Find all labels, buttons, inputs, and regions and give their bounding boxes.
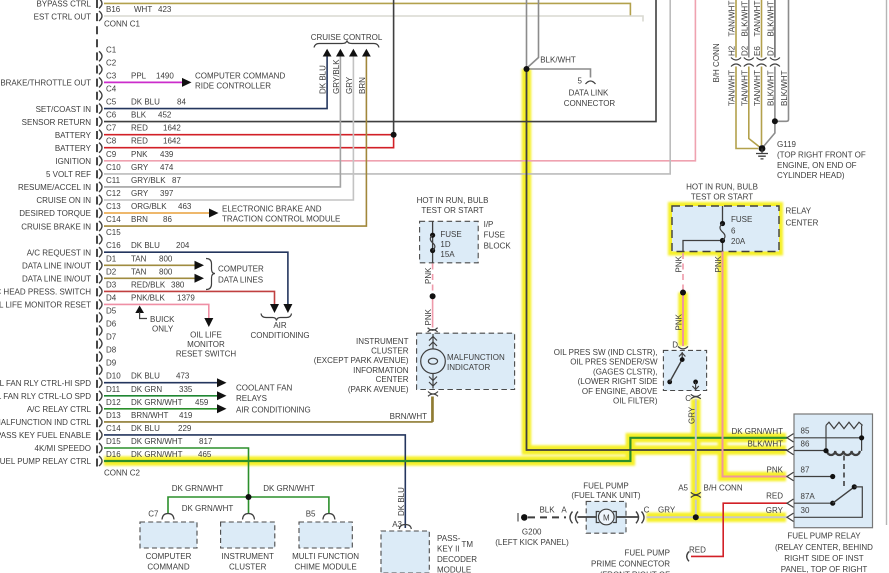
svg-text:HOT IN RUN, BULB: HOT IN RUN, BULB	[417, 196, 489, 205]
junction node D15 splice	[246, 494, 252, 500]
wire C14 BRN 86 cruise brake in	[104, 57, 366, 227]
junction node battery C7/C8	[391, 132, 397, 138]
motor fuel pump	[596, 509, 616, 525]
label electronic brake	[222, 205, 340, 224]
wire C9 PNK 439 ignition	[104, 0, 695, 161]
svg-text:423: 423	[158, 5, 172, 14]
svg-text:DATA LINE IN/OUT: DATA LINE IN/OUT	[22, 262, 91, 271]
svg-text:OIL LIFE: OIL LIFE	[190, 331, 222, 340]
svg-text:D12: D12	[106, 398, 121, 407]
svg-text:D15: D15	[106, 437, 121, 446]
svg-text:C6: C6	[106, 111, 117, 120]
svg-text:(LEFT KICK PANEL): (LEFT KICK PANEL)	[495, 538, 569, 547]
svg-text:FUEL PUMP: FUEL PUMP	[625, 549, 671, 558]
svg-text:84: 84	[177, 98, 186, 107]
malfunction indicator box	[417, 333, 515, 389]
svg-text:BLK/WHT: BLK/WHT	[766, 1, 775, 37]
svg-text:465: 465	[198, 450, 212, 459]
I/P fuse block box	[420, 221, 479, 262]
svg-text:IGNITION: IGNITION	[55, 157, 91, 166]
wire BLK/WHT B/H conn pin D7	[764, 0, 775, 147]
svg-text:TAN: TAN	[131, 254, 147, 263]
arrow up cruise BRN	[362, 49, 371, 57]
svg-text:335: 335	[179, 385, 193, 394]
svg-text:MONITOR: MONITOR	[187, 340, 225, 349]
ground G119	[756, 145, 768, 159]
label A5 B/H conn	[678, 484, 743, 493]
label B/H conn rotated	[712, 43, 721, 82]
svg-text:D6: D6	[106, 320, 117, 329]
junction node data link splice	[524, 66, 530, 72]
svg-text:D2: D2	[740, 45, 749, 56]
svg-text:CRUISE CONTROL: CRUISE CONTROL	[311, 33, 383, 42]
computer command ride controller box	[140, 522, 197, 548]
svg-text:RESUME/ACCEL IN: RESUME/ACCEL IN	[18, 183, 91, 192]
oil pressure switch box	[663, 350, 706, 390]
svg-text:PNK: PNK	[675, 313, 684, 330]
connector arc C7 box	[162, 514, 174, 520]
svg-text:FUEL PUMP RELAY: FUEL PUMP RELAY	[787, 532, 861, 541]
svg-text:CONN C1: CONN C1	[104, 20, 141, 29]
label pnk rotated fuse 1D	[424, 267, 433, 284]
fuse 6 symbol	[720, 221, 725, 243]
svg-text:DECODER: DECODER	[437, 555, 477, 564]
svg-text:ORG/BLK: ORG/BLK	[131, 202, 167, 211]
svg-text:COMPUTER: COMPUTER	[146, 552, 192, 561]
svg-text:DATA LINES: DATA LINES	[218, 276, 263, 285]
labels relay pin numbers	[801, 427, 816, 515]
wire PNK dashed to junction	[682, 253, 684, 290]
wire PNK to malfunction indicator	[432, 296, 434, 327]
svg-text:RED: RED	[766, 492, 783, 501]
svg-text:BRN/WHT: BRN/WHT	[131, 411, 168, 420]
svg-text:COMPUTER: COMPUTER	[218, 265, 264, 274]
svg-text:BLK/WHT: BLK/WHT	[747, 440, 783, 449]
connector arcs fuel pump pin A	[570, 512, 578, 524]
svg-text:BLOCK: BLOCK	[484, 242, 512, 251]
label blk and pin A	[539, 506, 567, 515]
svg-text:I/P: I/P	[484, 220, 494, 229]
svg-text:C3: C3	[106, 71, 117, 80]
wire fuel pump right lead	[617, 516, 639, 518]
connector arcs malfunction indicator bottom	[428, 392, 438, 397]
svg-text:D7: D7	[766, 45, 775, 56]
label oil life monitor reset switch	[176, 331, 237, 359]
svg-text:BLK: BLK	[131, 111, 147, 120]
svg-text:85: 85	[801, 427, 810, 436]
resistor relay coil suppressor	[826, 422, 863, 428]
junction node gry splice	[693, 514, 699, 520]
svg-text:RED: RED	[689, 546, 706, 555]
arrow D2 computer data lines	[195, 274, 205, 283]
wire color and circuit number labels	[131, 5, 213, 459]
svg-text:DK GRN/WHT: DK GRN/WHT	[731, 427, 783, 436]
svg-text:C11: C11	[106, 176, 121, 185]
label malfunction indicator	[447, 353, 505, 372]
wire BLK/WHT diagonal into junction	[528, 0, 539, 68]
svg-text:800: 800	[159, 267, 173, 276]
svg-text:C13: C13	[106, 202, 121, 211]
multi function chime module box	[299, 522, 352, 548]
label oil pressure switch location	[554, 348, 658, 406]
svg-text:30: 30	[801, 506, 810, 515]
svg-text:C7: C7	[106, 124, 117, 133]
svg-text:CHIME MODULE: CHIME MODULE	[294, 563, 356, 572]
HIGHLIGHT LAYER	[104, 69, 786, 517]
svg-text:H2: H2	[728, 45, 737, 56]
svg-text:86: 86	[801, 439, 810, 448]
svg-text:DK BLU: DK BLU	[131, 241, 160, 250]
wire BRN/WHT below malfunction indicator	[432, 397, 434, 422]
wire D11 DK GRN 335 fan relay lo	[104, 395, 217, 397]
pin arcs PCM connector	[99, 0, 102, 466]
svg-text:MALFUNCTION IND CTRL: MALFUNCTION IND CTRL	[0, 418, 92, 427]
svg-text:D13: D13	[106, 411, 121, 420]
svg-text:(RELAY CENTER, BEHIND: (RELAY CENTER, BEHIND	[775, 543, 873, 552]
svg-text:A/C HEAD PRESS. SWITCH: A/C HEAD PRESS. SWITCH	[0, 288, 91, 297]
svg-text:SENSOR RETURN: SENSOR RETURN	[22, 118, 92, 127]
svg-text:A3: A3	[392, 520, 402, 529]
svg-text:D4: D4	[106, 293, 117, 302]
svg-text:D1: D1	[106, 254, 117, 263]
svg-text:FUSE: FUSE	[731, 215, 752, 224]
wire B16 WHT 423 est ctrl out	[104, 16, 643, 22]
arrow D10 coolant fan relays	[217, 378, 227, 387]
left signal labels PCM	[0, 0, 92, 466]
wire C12 GRY 397 cruise on in	[104, 57, 353, 201]
svg-text:COOLANT FAN: COOLANT FAN	[236, 384, 293, 393]
svg-text:B/H CONN: B/H CONN	[704, 484, 743, 493]
wire fuse 6 internal stub	[722, 206, 724, 252]
svg-text:DK BLU: DK BLU	[131, 372, 160, 381]
connector arc instrument cluster box	[243, 514, 255, 520]
svg-text:COOL FAN RLY CTRL-HI SPD: COOL FAN RLY CTRL-HI SPD	[0, 379, 91, 388]
brace cruise control	[314, 41, 379, 48]
wire D12 DK GRN/WHT 459 a/c relay ctrl	[104, 408, 217, 410]
label C7 pin	[148, 510, 159, 519]
svg-text:C4: C4	[106, 85, 117, 94]
arrow up cruise DK BLU	[323, 49, 332, 57]
wire BLK fuel pump to G200 dashed	[528, 516, 566, 518]
wire D1 TAN 800 data line	[104, 264, 195, 266]
label multi function chime module box	[292, 552, 359, 573]
arrow down D4 oil life monitor reset switch	[204, 318, 213, 327]
svg-text:DATA LINE IN/OUT: DATA LINE IN/OUT	[22, 275, 91, 284]
svg-text:BLK/WHT: BLK/WHT	[540, 56, 576, 65]
svg-text:800: 800	[159, 254, 173, 263]
svg-text:380: 380	[171, 280, 185, 289]
svg-text:DK GRN/WHT: DK GRN/WHT	[131, 437, 183, 446]
svg-text:(GAGES CLSTR),: (GAGES CLSTR),	[593, 367, 657, 376]
instrument cluster box	[221, 522, 275, 548]
svg-text:C12: C12	[106, 189, 121, 198]
pin arrow 85	[787, 434, 794, 442]
svg-text:397: 397	[160, 189, 174, 198]
wire D15 DK GRN/WHT 817 speedo	[104, 448, 249, 497]
svg-text:DK BLU: DK BLU	[131, 424, 160, 433]
svg-text:CLUSTER: CLUSTER	[229, 563, 267, 572]
rotated wire labels below B/H conn	[728, 70, 790, 106]
svg-text:C1: C1	[106, 45, 117, 54]
svg-text:DK GRN/WHT: DK GRN/WHT	[263, 484, 315, 493]
connector arcs B/H conn H2	[731, 58, 741, 67]
svg-text:CRUISE BRAKE IN: CRUISE BRAKE IN	[21, 222, 91, 231]
label gry rotated	[687, 406, 696, 424]
svg-text:SET/COAST IN: SET/COAST IN	[36, 105, 92, 114]
svg-text:PRIME CONNECTOR: PRIME CONNECTOR	[591, 560, 670, 569]
label A3	[392, 520, 402, 529]
wire BLK/WHT to ground junction	[775, 0, 789, 121]
label fuel pump prime connector	[591, 549, 670, 573]
wire battery feed vertical	[393, 0, 395, 135]
relay internals fuel pump relay	[787, 422, 864, 521]
svg-text:RED/BLK: RED/BLK	[131, 280, 166, 289]
svg-text:BRN: BRN	[131, 215, 148, 224]
lamp malfunction indicator	[421, 334, 446, 389]
svg-text:439: 439	[160, 150, 174, 159]
svg-text:RESET SWITCH: RESET SWITCH	[176, 350, 237, 359]
svg-text:419: 419	[179, 411, 193, 420]
svg-text:PPL: PPL	[131, 71, 147, 80]
svg-text:MALFUNCTION: MALFUNCTION	[447, 353, 505, 362]
label blk/wht data link	[540, 56, 576, 65]
svg-text:DESIRED TORQUE: DESIRED TORQUE	[19, 209, 91, 218]
switch oil pressure	[667, 352, 699, 390]
svg-text:G119: G119	[777, 140, 797, 149]
svg-text:20A: 20A	[731, 237, 746, 246]
svg-text:OIL PRES SENDER/SW: OIL PRES SENDER/SW	[570, 358, 658, 367]
wire C8 RED 1642 battery	[104, 135, 394, 148]
connector arc fuel pump prime RED	[687, 552, 689, 562]
connector arcs oil pressure switch pin D	[678, 346, 688, 349]
wire PNK fuse6 branch left	[683, 241, 723, 252]
svg-text:BLK/WHT: BLK/WHT	[766, 70, 775, 106]
wire 30 internal	[794, 487, 862, 517]
armature dashed link	[843, 456, 845, 487]
wire PNK highlighted fuse6 to relay 87	[723, 252, 788, 477]
svg-text:D7: D7	[106, 333, 117, 342]
label fuel pump relay location	[775, 532, 873, 573]
label pnk rotated lower	[424, 308, 433, 325]
svg-text:TM: TM	[462, 540, 474, 549]
svg-text:RIDE CONTROLLER: RIDE CONTROLLER	[195, 81, 271, 90]
svg-text:6: 6	[731, 227, 736, 236]
wire C10 GRY 474 5 volt ref	[104, 0, 670, 174]
wire C13 ORG/BLK 463 desired torque	[104, 212, 209, 214]
svg-text:ONLY: ONLY	[152, 325, 174, 334]
svg-text:FUEL PUMP RELAY CTRL: FUEL PUMP RELAY CTRL	[0, 457, 92, 466]
svg-text:463: 463	[178, 202, 192, 211]
svg-text:PNK: PNK	[424, 308, 433, 325]
svg-text:C15: C15	[106, 228, 121, 237]
svg-text:INDICATOR: INDICATOR	[447, 363, 490, 372]
junction node pnk relay center splice	[680, 290, 686, 296]
connector arcs fuel pump pin C	[636, 512, 644, 524]
svg-text:D: D	[672, 340, 678, 349]
svg-text:AIR CONDITIONING: AIR CONDITIONING	[236, 406, 311, 415]
wire D16 DK GRN/WHT 465 fuel pump relay ctrl (highlighted)	[104, 438, 787, 461]
pin number labels PCM	[104, 5, 141, 478]
svg-text:(LOWER RIGHT SIDE: (LOWER RIGHT SIDE	[578, 377, 658, 386]
connector arcs malfunction indicator top	[428, 328, 438, 332]
svg-text:CENTER: CENTER	[376, 375, 409, 384]
svg-text:G200: G200	[522, 528, 542, 537]
connector arcs oil pressure switch pin C	[691, 394, 701, 399]
svg-text:PNK: PNK	[767, 466, 784, 475]
arrow D11 coolant fan relays	[217, 391, 227, 400]
svg-text:(FUEL TANK UNIT): (FUEL TANK UNIT)	[571, 491, 641, 500]
arrow up buick only note	[135, 306, 147, 319]
wire 87 internal	[794, 476, 833, 478]
svg-text:A5: A5	[678, 484, 688, 493]
svg-text:RIGHT SIDE OF INST: RIGHT SIDE OF INST	[784, 554, 864, 563]
connector arc B5 box	[323, 514, 335, 520]
wire highlight PNK to oil pressure switch	[678, 293, 688, 347]
wire D10 DK BLU 473 fan relay hi	[104, 382, 217, 384]
svg-text:PNK/BLK: PNK/BLK	[131, 293, 165, 302]
wire GRY fuel pump to relay 30	[647, 516, 788, 518]
svg-text:EST CTRL OUT: EST CTRL OUT	[34, 13, 91, 22]
svg-text:C16: C16	[106, 241, 121, 250]
pin arrow 30	[787, 513, 794, 521]
connector arcs B/H conn D7	[770, 58, 780, 67]
wire 86 internal	[794, 450, 826, 452]
wire TAN/WHT B/H conn pin D2	[749, 0, 761, 148]
wire B15 TAN bypass ctrl	[104, 3, 630, 16]
svg-text:87: 87	[172, 176, 181, 185]
junction node pnk splice	[430, 293, 436, 299]
svg-text:INSTRUMENT: INSTRUMENT	[221, 552, 274, 561]
pin arrow 87	[787, 472, 794, 480]
switch arm relay	[833, 487, 855, 503]
svg-text:A/C REQUEST IN: A/C REQUEST IN	[27, 248, 92, 257]
svg-text:DK GRN/WHT: DK GRN/WHT	[131, 398, 183, 407]
fuel pump relay box	[794, 414, 873, 528]
svg-text:BUICK: BUICK	[150, 315, 175, 324]
arrow D12 air conditioning	[217, 404, 227, 413]
svg-text:CLUSTER: CLUSTER	[371, 347, 409, 356]
wire D4 PNK/BLK 1379 oil life monitor reset	[104, 304, 209, 318]
labels dk grn/wht branches	[172, 484, 315, 513]
svg-text:CONNECTOR: CONNECTOR	[564, 99, 616, 108]
svg-text:D16: D16	[106, 450, 121, 459]
label red prime connector	[689, 546, 706, 555]
svg-text:(EXCEPT PARK AVENUE): (EXCEPT PARK AVENUE)	[314, 356, 409, 365]
wire C7 RED 1642 battery	[104, 134, 394, 136]
wire highlight BLK/WHT data-link to relay pin 86	[527, 69, 787, 450]
arrow C3 computer command ride controller	[182, 78, 192, 87]
svg-text:PASS-: PASS-	[437, 534, 461, 543]
svg-text:817: 817	[199, 437, 213, 446]
svg-text:BATTERY: BATTERY	[55, 144, 92, 153]
brace air conditioning	[261, 314, 292, 321]
wire highlight GRY switch to fuel pump and relay pin 30	[691, 399, 701, 517]
wire GRY oil pressure switch to fuel pump line	[695, 399, 697, 517]
svg-text:86: 86	[163, 215, 172, 224]
label hot in run fuse 1D	[417, 196, 489, 215]
svg-text:RED: RED	[131, 124, 148, 133]
svg-text:B16: B16	[106, 5, 121, 14]
wire highlight DK GRN/WHT D16 to relay pin 85	[104, 438, 786, 461]
wire RED relay 87A to prime connector	[691, 503, 787, 556]
label air conditioning d12	[236, 406, 311, 415]
svg-text:COMMAND: COMMAND	[147, 563, 189, 572]
svg-text:FUEL PUMP: FUEL PUMP	[583, 481, 629, 490]
svg-text:KEY II: KEY II	[437, 545, 460, 554]
svg-text:TAN: TAN	[131, 267, 147, 276]
svg-text:4K/MI SPEEDO: 4K/MI SPEEDO	[35, 444, 91, 453]
svg-text:474: 474	[160, 163, 174, 172]
svg-text:TAN/WHT: TAN/WHT	[728, 1, 737, 37]
svg-text:PNK: PNK	[675, 255, 684, 272]
svg-text:GRY/BLK: GRY/BLK	[332, 59, 341, 94]
label pnk rotated left branch	[675, 255, 684, 272]
svg-text:ELECTRONIC BRAKE AND: ELECTRONIC BRAKE AND	[222, 205, 322, 214]
label computer data lines	[218, 265, 264, 285]
svg-text:D3: D3	[106, 280, 117, 289]
wire PNK dashed below I/P fuse	[432, 264, 434, 295]
svg-text:C9: C9	[106, 150, 117, 159]
svg-text:GRY: GRY	[658, 506, 676, 515]
connector arcs B/H conn E6	[757, 58, 767, 67]
svg-text:BLK/WHT: BLK/WHT	[740, 1, 749, 37]
svg-text:5 VOLT REF: 5 VOLT REF	[46, 170, 91, 179]
svg-text:1D: 1D	[440, 240, 450, 249]
svg-text:GRY: GRY	[131, 163, 149, 172]
svg-text:TAN/WHT: TAN/WHT	[753, 70, 762, 106]
svg-text:DK BLU: DK BLU	[397, 487, 406, 516]
svg-text:DATA LINK: DATA LINK	[569, 89, 609, 98]
svg-text:87: 87	[801, 465, 810, 474]
svg-text:TEST OR START: TEST OR START	[421, 206, 483, 215]
connector arc data link pin 5	[586, 81, 596, 84]
label air conditioning bottom left	[250, 321, 309, 340]
svg-text:AIR: AIR	[273, 321, 287, 330]
svg-text:GRY: GRY	[766, 506, 784, 515]
label dk blu rotated pass-key	[397, 487, 406, 516]
wire C11 GRY/BLK 87 resume/accel in	[104, 57, 340, 187]
svg-text:CENTER: CENTER	[786, 219, 819, 228]
label B5 pin	[306, 510, 316, 519]
svg-text:FUSE: FUSE	[484, 231, 505, 240]
svg-text:DK GRN: DK GRN	[131, 385, 162, 394]
svg-text:GRY: GRY	[687, 406, 696, 424]
svg-text:PNK: PNK	[424, 267, 433, 284]
svg-text:COOL FAN RLY CTRL-LO SPD: COOL FAN RLY CTRL-LO SPD	[0, 392, 91, 401]
wire C3 PPL 1490 brake/throttle out	[104, 81, 182, 83]
svg-text:M: M	[603, 514, 610, 523]
svg-text:PNK: PNK	[131, 150, 148, 159]
svg-text:CONN C2: CONN C2	[104, 469, 141, 478]
svg-text:INSTRUMENT: INSTRUMENT	[356, 337, 409, 346]
relay coil	[827, 451, 860, 455]
svg-text:MULTI FUNCTION: MULTI FUNCTION	[292, 552, 359, 561]
svg-text:TAN/WHT: TAN/WHT	[728, 70, 737, 106]
wire C6 BLK 452 sensor return	[104, 0, 656, 122]
connector arcs A5 B/H conn	[691, 492, 701, 497]
svg-text:452: 452	[158, 111, 172, 120]
label pin C gry	[644, 506, 676, 515]
arrow down D3 air conditioning	[270, 304, 279, 313]
svg-text:A/C RELAY CTRL: A/C RELAY CTRL	[27, 405, 92, 414]
wire D2 TAN 800 data line	[104, 277, 195, 279]
svg-text:PNK: PNK	[714, 255, 723, 272]
wire PNK junction to oil pressure switch	[682, 293, 684, 347]
svg-text:GRY: GRY	[345, 76, 354, 94]
svg-text:C14: C14	[106, 424, 121, 433]
svg-text:1642: 1642	[163, 124, 181, 133]
svg-text:BYPASS CTRL: BYPASS CTRL	[36, 0, 91, 9]
